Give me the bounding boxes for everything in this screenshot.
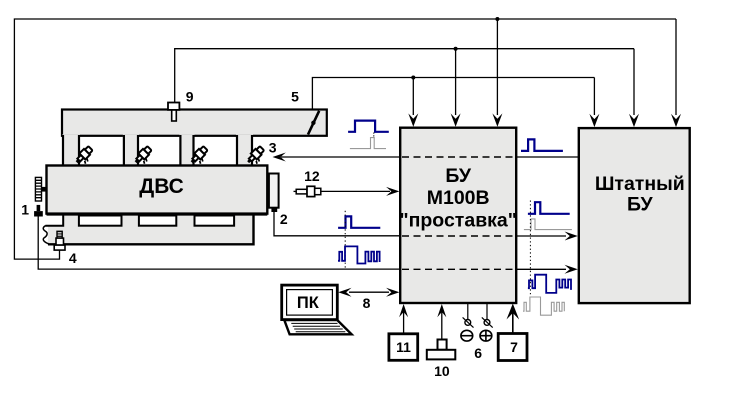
component 10 button	[438, 340, 447, 350]
svg-text:6: 6	[474, 345, 482, 361]
waveform: gray pulse below	[350, 138, 386, 149]
svg-text:11: 11	[396, 339, 411, 355]
svg-text:12: 12	[304, 168, 320, 184]
pan notch 3	[195, 216, 235, 226]
dotted vertical line 1	[344, 211, 346, 269]
spark plug 4	[57, 231, 62, 238]
manifold runner 3	[179, 135, 194, 166]
waveform: blue pulse between boxes middle	[528, 202, 570, 214]
laptop PC screen	[282, 285, 338, 320]
svg-text:БУ: БУ	[445, 165, 472, 187]
wire: second loop from manifold sensor 9 across top	[175, 49, 634, 103]
arrowheads into stock ECU top	[589, 114, 599, 127]
box 11	[389, 334, 418, 361]
component 12: inline sensor	[294, 190, 297, 192]
pan notch 2	[139, 216, 176, 226]
wire: M100B to stock ECU middle link with arrow	[516, 235, 566, 237]
wire: M100B to stock ECU upper link	[516, 156, 579, 158]
svg-text:9: 9	[186, 88, 194, 104]
wire: comp 10 arrow up	[441, 307, 443, 340]
laptop base	[284, 320, 351, 334]
engine bottom edge redrawn	[47, 213, 268, 215]
manifold runner 4	[236, 135, 253, 166]
wire: drop from wire1 to stock ECU top	[675, 19, 677, 115]
svg-text:3: 3	[269, 140, 277, 156]
tiny dotted link	[373, 133, 375, 138]
pan notch 0	[45, 216, 63, 226]
wire: top outer loop from spark plug 4 up left side and across top	[14, 19, 676, 259]
svg-text:8: 8	[363, 295, 371, 311]
svg-text:ДВС: ДВС	[139, 175, 184, 198]
waveform: blue crank square wave left	[338, 246, 380, 263]
node: junction on wire 2	[454, 47, 458, 51]
manifold runner 1	[62, 135, 80, 166]
wire: PC link double arrow	[349, 291, 389, 293]
node: junction on wire 3	[411, 76, 415, 80]
dashed divider 1 inside M100B	[402, 156, 515, 158]
crankcase / oil pan	[48, 216, 254, 245]
wheel connector to engine	[42, 187, 47, 192]
svg-text:4: 4	[69, 250, 77, 266]
injector 4	[245, 145, 267, 167]
dotted vertical line 2	[529, 201, 531, 297]
stock ECU box	[579, 128, 690, 303]
wire: drop from wire1 to M100B unit top	[496, 19, 498, 115]
crank sensor 1	[37, 205, 41, 211]
wire: crank sensor 1 to M100B lower input	[38, 219, 400, 269]
svg-text:"проставка": "проставка"	[399, 209, 517, 231]
waveform: blue pulse near sensor2 line	[338, 216, 380, 227]
ECU M100B box	[400, 128, 516, 303]
engine block DVS	[47, 166, 268, 214]
svg-text:ПК: ПК	[297, 294, 320, 312]
throttle plate 5	[308, 111, 319, 135]
wire: box 11 arrow up	[403, 307, 405, 334]
waveform: gray pulse between boxes middle	[524, 219, 572, 230]
toothed wheel	[35, 177, 41, 201]
waveform: blue pulse (injector cmd) top middle	[348, 121, 389, 132]
wire: drop from wire2 to M100B unit top	[455, 49, 457, 115]
svg-text:2: 2	[280, 211, 288, 227]
wire: component 12 to M100B with right arrow	[321, 190, 390, 192]
dashed divider 3 inside M100B	[402, 268, 515, 270]
svg-text:10: 10	[434, 363, 450, 379]
arrowheads into M100B top	[408, 113, 418, 126]
wire: sensor 2 to M100B middle input	[274, 212, 400, 236]
intake manifold bar	[62, 110, 327, 136]
pan notch 1	[79, 216, 122, 226]
manifold runner 2	[123, 135, 139, 166]
svg-text:М100В: М100В	[427, 187, 490, 209]
sensor 9 on manifold	[168, 103, 179, 110]
wire: drop from wire2 to stock ECU top	[633, 49, 635, 115]
sensor 2 black tip	[271, 208, 277, 212]
dashed divider 2 inside M100B	[402, 235, 515, 237]
wire: M100B to stock ECU lower link with arrow	[516, 268, 566, 270]
injector 2	[133, 145, 155, 167]
waveform: gray square wave bottom	[523, 297, 564, 315]
svg-text:7: 7	[510, 339, 518, 355]
svg-text:1: 1	[21, 201, 29, 217]
component 6: adjustment pots	[468, 303, 487, 320]
wire: injector control from M100B to injectors	[281, 156, 400, 158]
pan wavy left edge	[43, 226, 48, 245]
pan bottom and right border	[48, 216, 254, 245]
svg-text:5: 5	[291, 88, 299, 104]
waveform: blue pulse between boxes top	[521, 139, 563, 151]
wire: box 7 big arrow up	[512, 313, 514, 334]
waveform: blue square wave between boxes bottom	[528, 275, 571, 293]
wire: drop from wire3 to stock ECU top	[593, 78, 595, 116]
sensor 2 housing on engine right	[269, 174, 279, 208]
box 7	[498, 334, 527, 361]
injector 3	[189, 145, 211, 167]
wire: third loop from throttle 5 across top	[312, 78, 594, 109]
arrowhead pointing left at injector	[273, 153, 286, 162]
svg-text:Штатный: Штатный	[595, 173, 685, 195]
wire: drop from wire3 to M100B unit top	[412, 78, 414, 116]
node: junction on top wire 1	[495, 17, 499, 21]
svg-text:БУ: БУ	[627, 193, 654, 215]
injector 1	[74, 145, 96, 167]
